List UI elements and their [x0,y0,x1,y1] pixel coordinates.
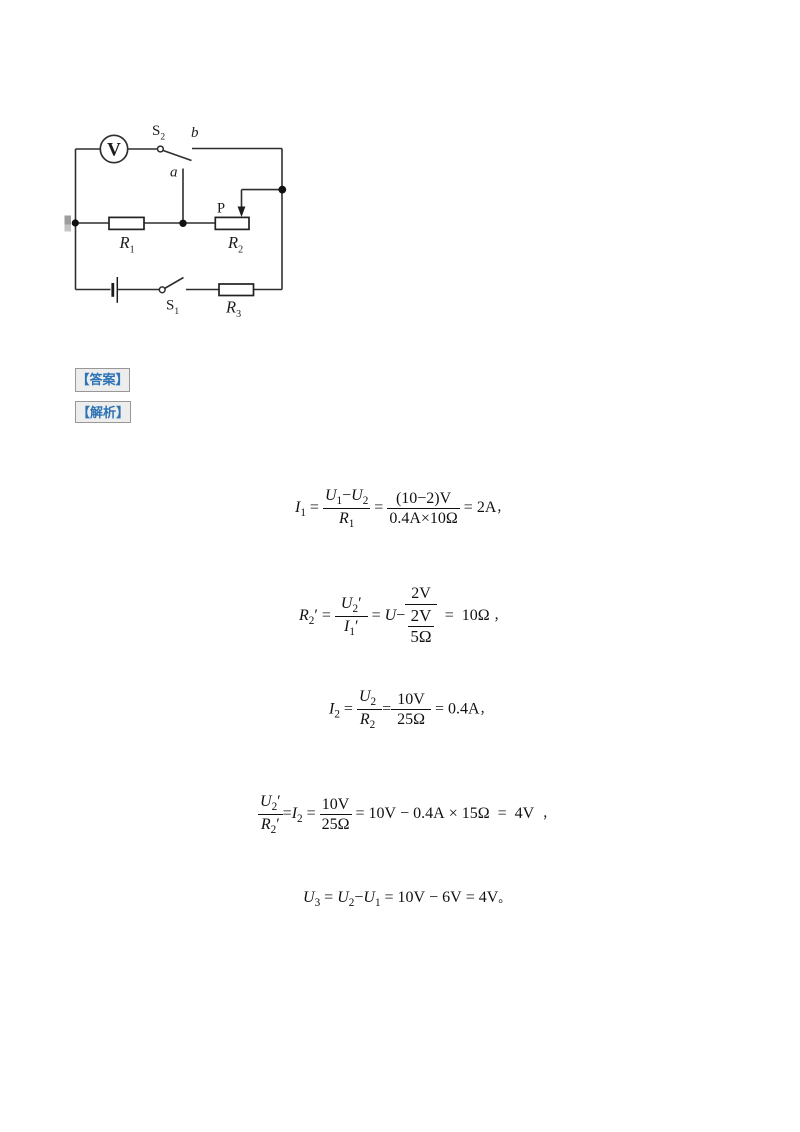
wire slider horizontal from right wire [242,189,283,191]
svg-text:V: V [107,140,121,161]
scrollbar artifact gray blob [65,216,72,225]
svg-text:a: a [170,165,178,181]
formula line 4 [258,788,554,840]
svg-text:b: b [191,125,199,141]
tag answer [75,368,130,392]
slider arrowhead on R2 [238,207,246,218]
potentiometer R2 body [215,217,249,229]
svg-text:P: P [217,201,225,217]
wire voltmeter to switch S2 [128,148,158,150]
wire bottom left to battery [76,289,111,291]
wire R1 to node a [144,222,183,224]
voltmeter U1 circle [100,135,127,162]
circuit figure image [64,119,288,328]
formula line 5 [303,884,510,912]
switch S2 contact circle [158,146,164,152]
node dot right slider [278,186,286,194]
tag analysis [75,401,131,423]
resistor R1 body [109,217,144,229]
formula line 3 [329,687,492,731]
node dot left [72,219,79,226]
wire top left to voltmeter [76,148,101,150]
formula line 1 [295,485,508,531]
switch S1 contact circle [159,287,165,293]
switch S1 lever [165,278,184,289]
wire switch S1 to R3 [186,289,219,291]
switch S2 lever [163,151,191,161]
figure white background [64,119,288,328]
resistor R3 body [219,284,254,296]
wire middle left to R1 [76,222,110,224]
wire right vertical [281,149,283,290]
formula line 2 [299,584,506,648]
wire slider vertical shaft [241,190,243,209]
battery positive plate long [116,277,118,303]
wire left vertical [75,149,77,290]
battery negative plate short [111,283,114,297]
wire battery to switch S1 [117,289,159,291]
wire top right segment to corner [192,148,282,150]
wire a vertical [182,169,184,224]
wire node a to R2 [183,222,215,224]
node dot a junction [179,220,186,227]
wire R3 to right wire [254,289,283,291]
